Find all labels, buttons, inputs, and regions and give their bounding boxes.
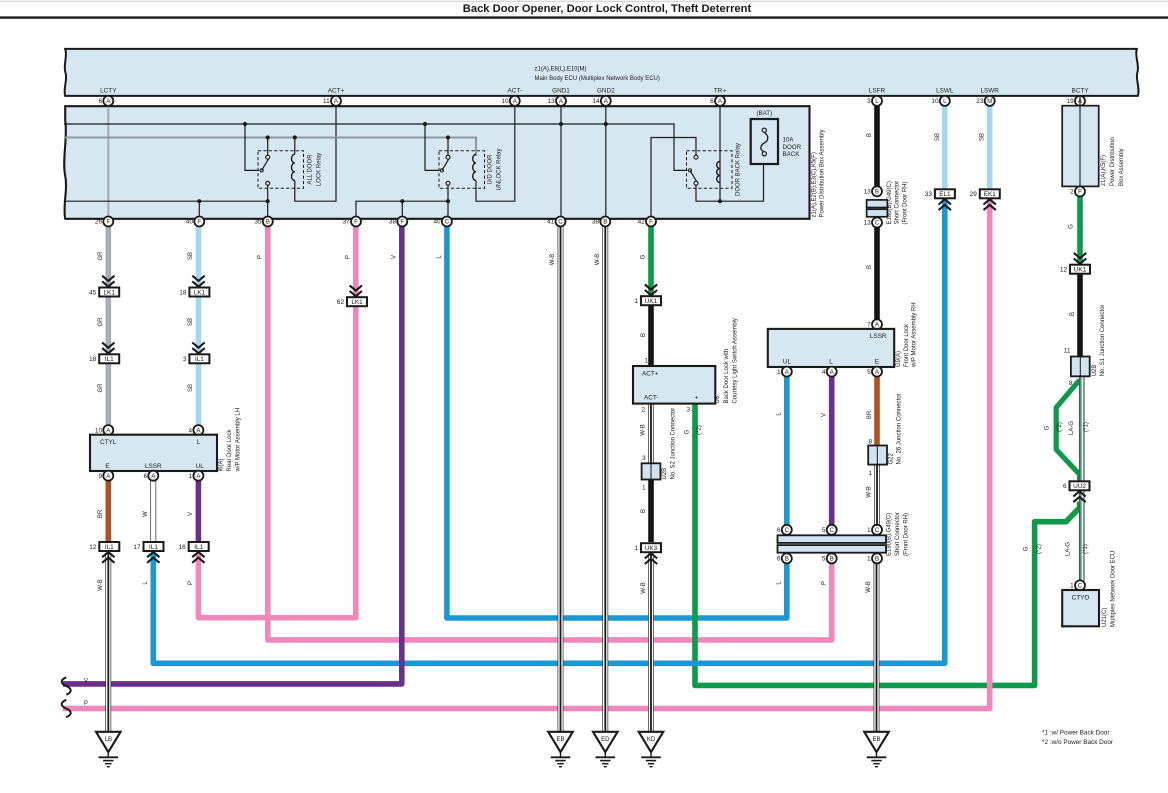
short connector E180(B) G49(C) upper [872, 186, 882, 196]
svg-text:UK1: UK1 [1074, 267, 1087, 274]
svg-text:Short Connector: Short Connector [895, 181, 901, 225]
connector 1 UK1 [641, 296, 661, 305]
svg-text:BR: BR [98, 509, 104, 518]
relay box pin 40(C) [442, 217, 452, 227]
relay U/D DOOR UNLOCK coil [473, 154, 476, 180]
svg-text:IL1: IL1 [149, 544, 158, 551]
svg-text:1: 1 [867, 527, 871, 534]
svg-text:L: L [829, 359, 833, 366]
svg-text:2: 2 [1070, 189, 1074, 196]
power distribution box assembly right [1062, 106, 1099, 187]
svg-text:L: L [437, 255, 443, 259]
wire G bypass S1-8 to UU2 [1056, 380, 1079, 481]
svg-text:Rear Door Lock: Rear Door Lock [227, 428, 233, 471]
svg-text:C: C [875, 220, 880, 227]
svg-text:17: 17 [133, 544, 141, 551]
svg-text:No. S2 Junction Connector: No. S2 Junction Connector [671, 408, 677, 480]
wire BR rear door lock E to 12 IL1 [106, 480, 112, 542]
wire W-B G22 to 1C [874, 465, 880, 526]
svg-text:LSSR: LSSR [145, 463, 162, 470]
svg-text:G: G [641, 254, 647, 259]
svg-text:B: B [867, 265, 873, 269]
wire B LSFR upper [874, 96, 880, 187]
ground EB [548, 732, 573, 752]
svg-text:5: 5 [822, 527, 826, 534]
svg-text:*2 :w/o Power Back Door: *2 :w/o Power Back Door [1042, 739, 1114, 746]
svg-text:L: L [143, 581, 149, 585]
svg-text:C: C [1078, 583, 1083, 590]
svg-text:U/D DOOR: U/D DOOR [488, 154, 494, 185]
back door lock box [633, 366, 715, 404]
wire P 35B to short connector 5B [268, 222, 832, 640]
wire B UK1 to back door lock [648, 306, 654, 366]
ground KD [639, 732, 664, 752]
bus line 3 left [64, 200, 268, 202]
svg-text:B: B [875, 189, 879, 196]
svg-text:LK1: LK1 [194, 289, 206, 296]
wire V LSSR L to 5C [829, 376, 835, 525]
svg-text:GR: GR [98, 251, 104, 261]
relay DOOR BACK coil [717, 162, 720, 183]
svg-text:B: B [785, 556, 789, 563]
svg-text:UK3: UK3 [645, 545, 658, 552]
svg-text:(*2): (*2) [1036, 544, 1042, 554]
pin 5A front door lock [872, 367, 882, 377]
svg-text:w/P Motor Assembly LH: w/P Motor Assembly LH [236, 408, 242, 473]
svg-text:CTYL: CTYL [100, 439, 117, 446]
wire G back door lock pin3 long route [695, 404, 1080, 686]
connector 18 LK1 fill [189, 288, 209, 297]
connector 12 UK1 [1070, 265, 1090, 274]
svg-text:38: 38 [592, 219, 600, 226]
svg-text:BACK: BACK [783, 151, 801, 158]
svg-text:Back Door Opener, Door Lock Co: Back Door Opener, Door Lock Control, The… [463, 3, 752, 15]
pin 6A rear door lock [148, 471, 158, 481]
svg-text:Multiplex Network Door ECU: Multiplex Network Door ECU [1110, 551, 1116, 627]
pin 5B short connector [827, 553, 837, 563]
multiplex network door ECU box [1062, 590, 1099, 626]
stub 38F [401, 201, 403, 217]
svg-text:P: P [84, 700, 88, 707]
connector 29 EK1 fill [980, 189, 1000, 198]
svg-text:F: F [106, 219, 110, 226]
svg-text:(*2): (*2) [696, 425, 702, 435]
svg-text:Courtesy Light Switch Assembly: Courtesy Light Switch Assembly [733, 318, 739, 403]
svg-text:B: B [641, 333, 647, 337]
svg-text:IL1: IL1 [105, 356, 114, 363]
relay box pin 40(F) [194, 217, 204, 227]
svg-text:W-B: W-B [595, 254, 601, 266]
door back switch to fuse line [696, 164, 764, 201]
svg-text:ACT-: ACT- [508, 88, 523, 95]
svg-text:(BAT): (BAT) [756, 110, 772, 117]
svg-text:U2B: U2B [1092, 365, 1098, 377]
svg-text:P: P [258, 255, 264, 259]
svg-text:Short Connector: Short Connector [895, 512, 901, 556]
pin 7A front door lock [872, 319, 882, 329]
svg-text:IL1: IL1 [194, 544, 203, 551]
svg-text:(*2): (*2) [1057, 422, 1063, 432]
svg-text:F: F [649, 219, 653, 226]
svg-text:1: 1 [868, 470, 872, 477]
svg-text:E: E [875, 359, 879, 366]
svg-text:LA-G: LA-G [1065, 542, 1071, 556]
svg-text:*1 :w/ Power Back Door: *1 :w/ Power Back Door [1042, 729, 1110, 736]
pin 4A rear door lock [193, 425, 203, 435]
svg-text:10: 10 [501, 98, 509, 105]
svg-text:1: 1 [642, 484, 646, 491]
svg-text:w/P Motor Assembly RH: w/P Motor Assembly RH [912, 302, 918, 368]
svg-text:13: 13 [548, 98, 556, 105]
svg-text:C: C [785, 527, 790, 534]
svg-text:TR+: TR+ [714, 88, 727, 95]
svg-text:P: P [346, 255, 352, 259]
wire G 42F to UK1 [648, 222, 654, 296]
wire B 12UK1 to S1 [1077, 274, 1083, 357]
chevron into 12 UK1 [1074, 253, 1086, 258]
svg-text:UU2: UU2 [1073, 483, 1086, 490]
svg-text:SB: SB [188, 252, 194, 260]
svg-text:6: 6 [98, 98, 102, 105]
svg-text:9: 9 [98, 473, 102, 480]
chevron into 62 LK1 [350, 285, 362, 290]
relay box pin 26(F) [103, 217, 113, 227]
svg-text:G9(A): G9(A) [896, 351, 902, 367]
svg-text:40: 40 [433, 219, 441, 226]
svg-text:LSWL: LSWL [936, 88, 954, 95]
svg-text:SB: SB [188, 318, 194, 326]
svg-text:18: 18 [179, 289, 187, 296]
wire W-B 12 IL1 to ground LB [105, 553, 111, 734]
svg-text:Power Distribution Box Assembl: Power Distribution Box Assembly [820, 129, 826, 217]
svg-text:G22: G22 [889, 452, 895, 464]
pin 1C CTYO [1075, 580, 1085, 590]
svg-text:ALL DOOR: ALL DOOR [308, 154, 314, 185]
svg-text:(*1): (*1) [1084, 422, 1090, 432]
unlock relay connections [447, 138, 449, 156]
svg-text:P: P [822, 581, 828, 585]
svg-text:E: E [105, 463, 109, 470]
svg-text:E180(B),G49(C): E180(B),G49(C) [886, 513, 892, 556]
relay ALL DOOR LOCK switch [266, 155, 270, 159]
svg-text:LCTY: LCTY [100, 88, 117, 95]
svg-text:42: 42 [638, 219, 646, 226]
bus line 1 [64, 124, 688, 170]
svg-text:I6(A): I6(A) [219, 458, 225, 471]
svg-text:B: B [266, 219, 270, 226]
connector 18 IL1 fill [99, 354, 119, 363]
svg-text:41: 41 [547, 219, 555, 226]
svg-text:6: 6 [777, 527, 781, 534]
wire LCTY internal [107, 106, 109, 217]
svg-text:4: 4 [822, 369, 826, 376]
svg-text:GND1: GND1 [552, 88, 570, 95]
svg-text:(Front Door RH): (Front Door RH) [903, 513, 909, 556]
connector 12 IL1 fill [99, 542, 119, 551]
connector 45 LK1 fill [99, 288, 119, 297]
stub 40F [198, 201, 200, 217]
svg-text:16: 16 [179, 544, 187, 551]
svg-text:B: B [603, 219, 607, 226]
svg-text:F: F [197, 219, 201, 226]
svg-text:10A: 10A [783, 137, 795, 144]
relay box pin 37(F) [351, 217, 361, 227]
front door lock box [768, 329, 894, 367]
svg-text:UL: UL [196, 463, 205, 470]
svg-text:L: L [197, 439, 201, 446]
pin 4A front door lock [827, 367, 837, 377]
svg-text:C: C [829, 527, 834, 534]
wire B LSFR lower [874, 227, 880, 321]
wire SB 40F to rear door lock [196, 222, 202, 426]
wire 42F to door back relay [651, 138, 696, 218]
relay U/D DOOR UNLOCK dashed box [439, 151, 485, 189]
svg-text:IL1: IL1 [105, 544, 114, 551]
svg-text:GR: GR [98, 317, 104, 327]
svg-text:M: M [987, 98, 992, 105]
svg-text:12: 12 [1060, 267, 1068, 274]
svg-text:B: B [867, 133, 873, 137]
svg-text:1: 1 [634, 298, 638, 305]
connector 3 IL1 [189, 354, 209, 363]
svg-text:F: F [400, 219, 404, 226]
wire ACT+ pin stub [335, 96, 337, 106]
relay U/D DOOR UNLOCK switch [446, 155, 450, 159]
svg-text:F: F [1078, 189, 1082, 196]
svg-text:W-B: W-B [98, 579, 104, 591]
svg-text:4: 4 [189, 427, 193, 434]
svg-text:W-B: W-B [640, 424, 646, 436]
wire B S2 to UK3 [648, 480, 654, 543]
svg-text:LA-G: LA-G [1069, 421, 1075, 435]
svg-text:33: 33 [925, 191, 933, 198]
title underline [0, 16, 1168, 18]
pin 6B short connector [782, 553, 792, 563]
svg-text:G: G [1023, 546, 1029, 551]
connector 62 LK1 [347, 297, 367, 306]
connector 45 LK1 [99, 288, 119, 297]
all door lock relay connections [267, 138, 269, 156]
connector 6 UU2 [1070, 481, 1090, 490]
svg-text:EB: EB [872, 737, 880, 743]
svg-text:LSSR: LSSR [870, 333, 887, 340]
wire GND1 internal [560, 96, 562, 217]
pin 2F BCTY [1075, 187, 1085, 197]
svg-text:13: 13 [864, 220, 872, 227]
svg-text:37: 37 [343, 219, 351, 226]
ground LB [96, 732, 121, 752]
svg-text:8: 8 [868, 439, 872, 446]
svg-text:38: 38 [389, 219, 397, 226]
relay box pin 41(C) [556, 217, 566, 227]
svg-text:LK1: LK1 [351, 299, 363, 306]
svg-text:18: 18 [89, 356, 97, 363]
pin 1A rear door lock [193, 471, 203, 481]
relay ALL DOOR LOCK coil [291, 154, 294, 180]
page top hairline [0, 0, 1168, 2]
connector 1 UK3 fill [641, 543, 661, 552]
svg-text:6: 6 [777, 556, 781, 563]
svg-text:GR: GR [98, 383, 104, 393]
wire V rear door lock UL to 16 IL1 [196, 480, 202, 542]
pin 5C short connector [827, 525, 837, 535]
svg-text:Power Distribution: Power Distribution [1110, 137, 1116, 186]
wire W-B 38B to ground ED [602, 222, 608, 735]
connector 12 IL1 [99, 542, 119, 551]
svg-text:+: + [695, 395, 699, 402]
wire SB LSWL [942, 96, 948, 190]
svg-text:U21(C): U21(C) [1102, 608, 1108, 627]
svg-text:G: G [685, 429, 691, 434]
svg-text:10: 10 [95, 427, 103, 434]
svg-text:45: 45 [89, 289, 97, 296]
svg-text:SB: SB [188, 384, 194, 392]
wire G BCTY to 12 UK1 [1077, 196, 1083, 264]
svg-text:1: 1 [1070, 583, 1074, 590]
wire L 40C to short connector 6B [447, 222, 787, 619]
wire L LSSR UL to 6C [784, 376, 790, 525]
wire W rear door lock LSSR to 17 IL1 [150, 480, 156, 542]
svg-text:3: 3 [183, 356, 187, 363]
svg-text:1: 1 [867, 556, 871, 563]
svg-text:ED: ED [601, 737, 610, 743]
svg-text:W-B: W-B [867, 486, 873, 498]
svg-text:8: 8 [1069, 380, 1073, 387]
svg-text:V: V [822, 413, 828, 417]
short connector E180(B) G49(C) lower [778, 535, 887, 543]
wire P EK1 long route [63, 198, 990, 708]
wire LA-G S1-8 to UU2 [1079, 376, 1085, 481]
svg-text:KD: KD [647, 737, 656, 743]
svg-text:z1(A),E8(L),E10(M): z1(A),E8(L),E10(M) [535, 66, 587, 72]
svg-text:G: G [1044, 425, 1050, 430]
svg-text:26: 26 [95, 219, 103, 226]
relay box pin 38(F) [397, 217, 407, 227]
svg-text:7: 7 [867, 322, 871, 329]
chevron into 1 UK1 [645, 284, 657, 289]
wire BR LSSR E to G22 [874, 376, 880, 446]
svg-text:z1(A),K5(F): z1(A),K5(F) [1101, 155, 1107, 186]
svg-text:L: L [777, 412, 783, 416]
connector 3 IL1 fill [189, 354, 209, 363]
connector 17 IL1 [144, 542, 164, 551]
svg-text:1: 1 [644, 357, 648, 364]
svg-text:C: C [875, 527, 880, 534]
junction dots [243, 122, 247, 126]
wire ACT- internal [476, 106, 515, 201]
svg-text:C: C [558, 219, 563, 226]
svg-text:EB: EB [556, 737, 564, 743]
svg-text:DOOR: DOOR [783, 144, 802, 151]
svg-text:40: 40 [186, 219, 194, 226]
svg-text:G: G [1069, 224, 1075, 229]
svg-text:B: B [875, 556, 879, 563]
svg-text:29: 29 [970, 191, 978, 198]
svg-text:CTYO: CTYO [1072, 595, 1090, 602]
wire TR+ internal [719, 96, 721, 202]
bus segment 37F-40C [356, 201, 448, 217]
connector 33 EL1 fill [935, 189, 955, 198]
svg-text:LB: LB [105, 737, 112, 743]
connector 29 EK1 [980, 189, 1000, 198]
svg-text:UL: UL [783, 359, 792, 366]
BCTY internal wire [1079, 96, 1081, 187]
svg-text:DOOR BACK Relay: DOOR BACK Relay [736, 143, 742, 196]
connector 6 UU2 fill [1070, 481, 1090, 490]
wire SB LSWR [987, 96, 993, 190]
svg-text:ACT+: ACT+ [642, 370, 659, 377]
ground ED [593, 732, 618, 752]
svg-text:W-B: W-B [866, 581, 872, 593]
wire LA-G UU2 to CTYO [1079, 490, 1085, 581]
svg-text:5: 5 [822, 556, 826, 563]
connector 16 IL1 fill [189, 542, 209, 551]
connector 1 UK1 fill [641, 296, 661, 305]
connector 18 IL1 [99, 354, 119, 363]
main body ECU box [65, 49, 1139, 96]
svg-text:U8: U8 [715, 395, 721, 403]
connector 18 LK1 [189, 288, 209, 297]
svg-text:W: W [143, 511, 149, 517]
ground EB right [864, 732, 889, 752]
svg-text:No. 26 Junction Connector: No. 26 Junction Connector [897, 393, 903, 464]
svg-text:ACT+: ACT+ [328, 88, 345, 95]
svg-text:SB: SB [980, 133, 986, 141]
svg-text:1: 1 [634, 545, 638, 552]
fuse 10A DOOR BACK box [751, 119, 778, 164]
svg-text:V: V [392, 255, 398, 259]
svg-text:E180(B),G49(C): E180(B),G49(C) [887, 181, 893, 224]
wire L EL1 long route [153, 198, 945, 663]
fuse element [762, 128, 766, 132]
wire ACT+ internal [295, 106, 336, 201]
svg-text:EL1: EL1 [939, 191, 951, 198]
svg-text:U2B: U2B [662, 468, 668, 480]
svg-text:62: 62 [337, 299, 345, 306]
svg-text:LK1: LK1 [104, 289, 116, 296]
svg-text:(*1): (*1) [1083, 544, 1089, 554]
svg-text:1: 1 [777, 369, 781, 376]
pin 1A front door lock [782, 367, 792, 377]
connector 12 UK1 fill [1070, 265, 1090, 274]
relay ALL DOOR LOCK dashed box [258, 151, 304, 189]
svg-text:z1(A),E2(B),E3(C),K5(F): z1(A),E2(B),E3(C),K5(F) [812, 152, 818, 217]
wire W-B 41C to ground EB2 [558, 222, 564, 735]
svg-text:Main Body ECU (Multiplex Netwo: Main Body ECU (Multiplex Network Body EC… [535, 76, 660, 82]
svg-text:Box Assembly: Box Assembly [1119, 148, 1125, 186]
svg-text:13: 13 [864, 189, 872, 196]
svg-text:F: F [354, 219, 358, 226]
connector 1 UK3 [641, 543, 661, 552]
relay box pin 38(B) [600, 217, 610, 227]
svg-text:LOCK Relay: LOCK Relay [317, 153, 323, 186]
svg-text:5: 5 [867, 369, 871, 376]
bus line 2 (gray) [64, 138, 476, 157]
svg-text:B: B [641, 509, 647, 513]
svg-text:LSFR: LSFR [869, 88, 886, 95]
svg-text:3: 3 [642, 455, 646, 462]
svg-text:Back Door Lock with: Back Door Lock with [724, 349, 730, 404]
relay DOOR BACK dashed box [687, 151, 733, 189]
relay DOOR BACK switch [694, 155, 698, 159]
wire V 38F to left squiggle [63, 222, 402, 684]
svg-text:23: 23 [976, 98, 984, 105]
svg-text:19: 19 [1067, 98, 1075, 105]
svg-text:UNLOCK Relay: UNLOCK Relay [497, 148, 503, 190]
wire W-B back door lock pin2 to S2 [648, 404, 654, 464]
svg-text:11: 11 [1064, 348, 1071, 355]
rear door lock box [90, 435, 217, 471]
